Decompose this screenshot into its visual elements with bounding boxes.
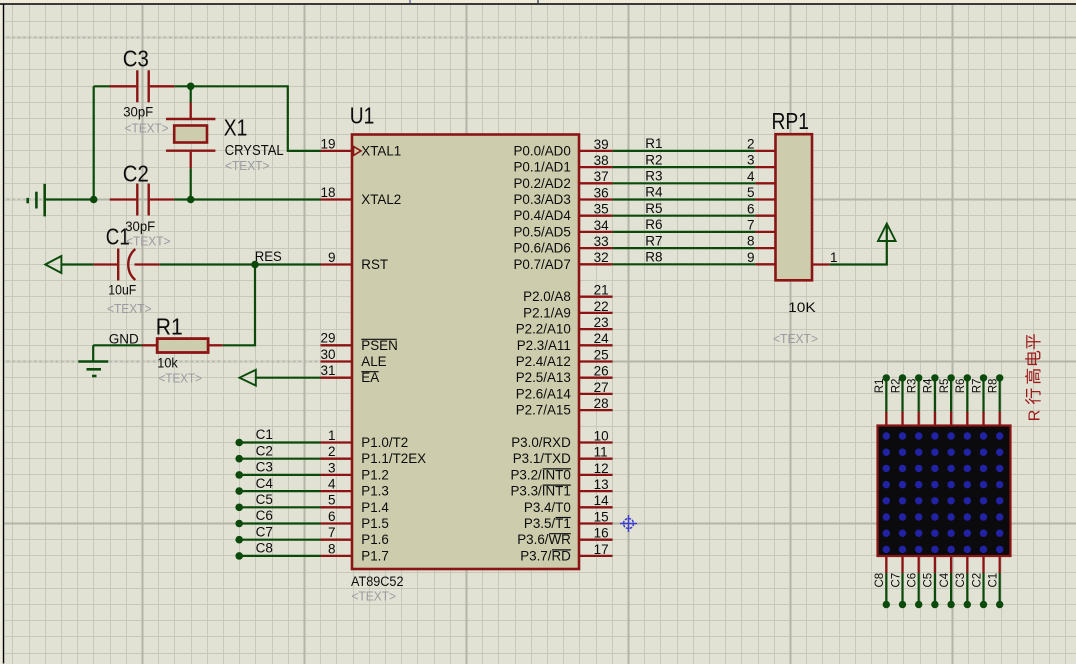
svg-text:17: 17 (594, 542, 609, 557)
svg-text:7: 7 (747, 218, 755, 233)
svg-text:C7: C7 (256, 524, 273, 539)
svg-text:R8: R8 (645, 250, 662, 265)
wire end dot net C2 (235, 455, 243, 463)
svg-text:10K: 10K (788, 300, 816, 315)
svg-text:R5: R5 (939, 379, 951, 394)
svg-text:R5: R5 (645, 201, 662, 216)
svg-text:1: 1 (328, 428, 336, 443)
svg-text:RP1: RP1 (772, 108, 810, 134)
svg-text:39: 39 (594, 137, 609, 152)
svg-text:R6: R6 (955, 379, 967, 394)
svg-text:P2.2/A10: P2.2/A10 (516, 322, 571, 337)
svg-text:4: 4 (328, 477, 336, 492)
XTAL1 clock input triangle (354, 146, 362, 155)
power terminal arrow (up) (878, 224, 896, 241)
IC U1 AT89C52 body (352, 135, 579, 570)
svg-text:15: 15 (594, 509, 609, 524)
RP1 pin 1 (812, 250, 838, 265)
svg-text:C8: C8 (256, 541, 273, 556)
matrix bottom pin C2 (980, 556, 987, 608)
U1 pin 22 P2.1/A9 (523, 299, 612, 321)
matrix bottom label C8 (874, 573, 886, 588)
svg-text:P3.7/RD: P3.7/RD (520, 548, 571, 563)
U1 pin 8 P1.7 (321, 541, 389, 563)
svg-text:8: 8 (328, 541, 336, 556)
svg-text:P2.4/A12: P2.4/A12 (516, 354, 571, 369)
matrix bottom label C7 (890, 573, 902, 588)
svg-text:2: 2 (747, 137, 755, 152)
svg-text:21: 21 (594, 283, 609, 298)
U1 pin 9 RST (321, 250, 389, 272)
svg-text:7: 7 (328, 525, 336, 540)
svg-text:9: 9 (328, 250, 336, 265)
matrix top pin R1 (883, 374, 890, 425)
wire GND to R1 (93, 344, 142, 346)
wire net R4 P0.3 to RP1 (613, 198, 756, 200)
RP1 pin 4 (747, 169, 776, 184)
svg-text:C5: C5 (256, 492, 273, 507)
RP1 pin 3 (747, 153, 776, 168)
wire rail to C3 left pin (94, 85, 110, 87)
matrix bottom label C2 (971, 573, 983, 588)
matrix top label R3 (907, 379, 919, 394)
svg-text:C4: C4 (939, 572, 951, 587)
svg-text:R: R (1026, 410, 1043, 422)
wire junction B to XTAL2 (191, 198, 321, 200)
svg-text:R8: R8 (988, 379, 1000, 394)
svg-text:22: 22 (594, 299, 609, 314)
wire net C3 to P1.2 (239, 474, 320, 476)
svg-text:23: 23 (594, 315, 609, 330)
LED dot-matrix display body (878, 426, 1011, 557)
svg-text:C1: C1 (256, 427, 273, 442)
svg-text:ALE: ALE (361, 354, 386, 369)
RP1 pin 2 (747, 137, 776, 152)
svg-text:CRYSTAL: CRYSTAL (225, 142, 284, 159)
svg-text:30pF: 30pF (123, 104, 153, 119)
wire net C6 to P1.5 (239, 522, 320, 524)
svg-text:C5: C5 (923, 573, 935, 588)
svg-text:P0.6/AD6: P0.6/AD6 (513, 241, 570, 256)
svg-text:4: 4 (747, 169, 755, 184)
matrix top pin R2 (899, 374, 906, 425)
matrix bottom label C4 (939, 572, 951, 587)
svg-text:34: 34 (594, 218, 610, 233)
svg-text:6: 6 (747, 201, 755, 216)
input terminal arrow (RES net) (45, 256, 61, 273)
svg-text:P1.6: P1.6 (361, 532, 389, 547)
U1 pin 36 P0.3/AD3 (513, 185, 612, 207)
RP1 pin 5 (747, 185, 776, 200)
svg-text:28: 28 (594, 396, 609, 411)
U1 pin 13 P3.3/INT1 (511, 477, 613, 499)
svg-text:C8: C8 (874, 573, 886, 588)
svg-text:29: 29 (320, 331, 335, 346)
U1 pin 39 P0.0/AD0 (513, 137, 612, 159)
svg-text:8: 8 (747, 234, 755, 249)
U1 pin 21 P2.0/A8 (523, 283, 612, 305)
U1 pin 27 P2.6/A14 (516, 380, 613, 402)
svg-text:18: 18 (320, 185, 335, 200)
svg-text:R6: R6 (645, 217, 662, 232)
svg-text:5: 5 (747, 185, 755, 200)
svg-text:12: 12 (594, 461, 609, 476)
svg-text:<TEXT>: <TEXT> (125, 121, 169, 136)
U1 pin 5 P1.4 (321, 493, 390, 515)
svg-text:R2: R2 (890, 379, 902, 394)
svg-text:P1.7: P1.7 (361, 548, 389, 563)
svg-text:27: 27 (594, 380, 609, 395)
wire end dot net C5 (235, 504, 243, 512)
svg-text:38: 38 (594, 153, 609, 168)
U1 pin 30 ALE (320, 347, 386, 369)
svg-text:XTAL2: XTAL2 (361, 192, 401, 207)
U1 pin 35 P0.4/AD4 (513, 202, 612, 224)
matrix bottom pin C6 (915, 556, 922, 608)
matrix bottom label C1 (988, 573, 1000, 588)
matrix top pin R3 (915, 374, 922, 425)
U1 pin 31 EA (320, 363, 379, 385)
svg-text:31: 31 (320, 363, 335, 378)
svg-text:P0.2/AD2: P0.2/AD2 (513, 176, 570, 191)
wire vertical rail C3-C2 (93, 86, 95, 199)
svg-text:C4: C4 (256, 476, 274, 491)
svg-text:X1: X1 (224, 114, 248, 140)
matrix bottom pin C7 (899, 556, 906, 608)
U1 pin 2 P1.1/T2EX (321, 444, 427, 466)
svg-text:13: 13 (594, 477, 609, 492)
matrix top label R7 (971, 379, 983, 394)
wire net C7 to P1.6 (239, 539, 320, 541)
svg-text:PSEN: PSEN (361, 338, 397, 353)
svg-text:P1.1/T2EX: P1.1/T2EX (361, 451, 426, 466)
U1 pin 24 P2.3/A11 (517, 331, 613, 353)
svg-text:5: 5 (328, 493, 336, 508)
svg-text:P1.3: P1.3 (361, 484, 389, 499)
svg-text:P2.6/A14: P2.6/A14 (516, 386, 572, 401)
svg-text:GND: GND (109, 331, 139, 346)
svg-text:P3.3/INT1: P3.3/INT1 (511, 484, 571, 499)
wire net R8 P0.7 to RP1 (613, 263, 756, 265)
svg-text:P0.1/AD1: P0.1/AD1 (513, 160, 570, 175)
svg-text:P2.3/A11: P2.3/A11 (517, 338, 571, 353)
input terminal arrow (EA net) (240, 370, 256, 386)
U1 pin 12 P3.2/INT0 (511, 461, 613, 483)
wire end dot net C1 (235, 439, 243, 447)
svg-text:C1: C1 (106, 223, 130, 249)
wire end dot net C8 (235, 552, 243, 560)
svg-text:9: 9 (747, 250, 755, 265)
U1 pin 15 P3.5/T1 (524, 509, 613, 531)
matrix bottom label C6 (907, 573, 919, 588)
U1 pin 16 P3.6/WR (517, 526, 612, 548)
ground symbol (below GND wire) (78, 345, 108, 376)
svg-text:U1: U1 (350, 103, 375, 129)
svg-text:25: 25 (594, 347, 609, 362)
RP1 pin 7 (747, 218, 776, 233)
svg-text:16: 16 (594, 526, 609, 541)
wire net R3 P0.2 to RP1 (613, 182, 756, 184)
svg-text:P3.6/WR: P3.6/WR (517, 532, 571, 547)
svg-text:P1.5: P1.5 (361, 516, 389, 531)
junction dot A (C3/X1 top) (187, 83, 195, 91)
svg-text:<TEXT>: <TEXT> (159, 371, 203, 386)
U1 pin 1 P1.0/T2 (321, 428, 409, 450)
svg-text:P1.0/T2: P1.0/T2 (361, 435, 408, 450)
resistor pack RP1 body (776, 134, 813, 280)
vertical note text R row high level (1025, 334, 1043, 421)
svg-text:11: 11 (594, 445, 608, 460)
resistor R1 (142, 339, 223, 353)
svg-text:P0.5/AD5: P0.5/AD5 (513, 224, 570, 239)
matrix bottom pin C5 (931, 556, 938, 608)
matrix top pin R4 (931, 374, 938, 425)
svg-text:<TEXT>: <TEXT> (352, 588, 397, 603)
svg-text:C6: C6 (907, 573, 919, 588)
U1 pin 7 P1.6 (321, 525, 389, 547)
svg-text:C1: C1 (988, 573, 1000, 588)
matrix top label R1 (874, 379, 886, 394)
svg-text:R4: R4 (645, 185, 663, 200)
wire net R7 P0.6 to RP1 (613, 247, 756, 249)
svg-text:P2.1/A9: P2.1/A9 (523, 305, 571, 320)
wire end dot net C4 (235, 487, 243, 495)
svg-text:36: 36 (594, 185, 609, 200)
svg-text:P3.5/T1: P3.5/T1 (524, 516, 571, 531)
U1 pin 4 P1.3 (321, 477, 389, 499)
svg-text:26: 26 (594, 364, 609, 379)
matrix top label R2 (890, 379, 902, 394)
svg-text:P2.5/A13: P2.5/A13 (516, 370, 571, 385)
U1 pin 34 P0.5/AD5 (513, 218, 612, 240)
svg-text:R7: R7 (971, 379, 983, 394)
U1 pin 17 P3.7/RD (520, 542, 612, 564)
svg-text:37: 37 (594, 169, 609, 184)
RP1 pin 9 (747, 250, 776, 265)
svg-text:R3: R3 (645, 169, 662, 184)
wire net R2 P0.1 to RP1 (613, 166, 756, 168)
svg-text:2: 2 (328, 444, 336, 459)
wire net C4 to P1.3 (239, 490, 320, 492)
svg-text:3: 3 (747, 153, 755, 168)
wire RES junction down to R1 (223, 265, 255, 346)
svg-text:EA: EA (361, 370, 379, 385)
crystal X1 (166, 86, 215, 199)
U1 pin 37 P0.2/AD2 (513, 169, 612, 191)
wire net C1 to P1.0 (239, 441, 320, 443)
matrix top pin R6 (964, 374, 971, 425)
matrix top label R5 (939, 379, 951, 394)
svg-text:32: 32 (594, 250, 609, 265)
U1 pin 23 P2.2/A10 (516, 315, 613, 337)
wire net C5 to P1.4 (239, 506, 320, 508)
matrix bottom pin C1 (996, 556, 1003, 608)
matrix top pin R8 (996, 374, 1003, 425)
svg-text:R2: R2 (645, 152, 662, 167)
matrix bottom pin C4 (947, 556, 954, 608)
wire C1 to RST pin (160, 263, 321, 265)
U1 pin 10 P3.0/RXD (511, 428, 612, 450)
wire RP1 pin1 to power terminal (830, 225, 887, 265)
svg-text:10uF: 10uF (108, 282, 136, 297)
svg-text:P1.4: P1.4 (361, 500, 389, 515)
ground terminal (left of C2) (28, 184, 45, 217)
svg-text:XTAL1: XTAL1 (361, 143, 401, 158)
U1 pin 18 XTAL2 (320, 185, 401, 207)
svg-text:P2.7/A15: P2.7/A15 (516, 403, 571, 418)
matrix top label R6 (955, 379, 967, 394)
svg-text:P0.7/AD7: P0.7/AD7 (513, 257, 570, 272)
svg-text:RES: RES (255, 249, 282, 264)
svg-text:R1: R1 (874, 379, 886, 394)
U1 pin 14 P3.4/T0 (524, 493, 613, 515)
svg-text:<TEXT>: <TEXT> (773, 331, 818, 346)
svg-text:AT89C52: AT89C52 (351, 574, 404, 589)
matrix top label R8 (988, 379, 1000, 394)
svg-text:<TEXT>: <TEXT> (126, 233, 171, 248)
U1 pin 19 XTAL1 (320, 136, 401, 158)
wire net R5 P0.4 to RP1 (613, 215, 756, 217)
wire C2 to junction B (174, 198, 190, 200)
wire end dot net C6 (235, 520, 243, 528)
svg-text:30: 30 (320, 347, 335, 362)
svg-text:C3: C3 (256, 460, 273, 475)
svg-text:RST: RST (361, 257, 388, 272)
svg-text:C2: C2 (123, 160, 149, 186)
svg-text:R1: R1 (156, 314, 183, 340)
svg-text:P3.0/RXD: P3.0/RXD (511, 435, 571, 450)
wire C3 to junction A (174, 85, 190, 87)
svg-text:19: 19 (320, 136, 335, 151)
svg-text:10k: 10k (157, 355, 178, 370)
U1 pin 3 P1.2 (321, 460, 389, 482)
origin marker crosshair (620, 515, 637, 532)
matrix top pin R5 (947, 374, 954, 425)
svg-text:24: 24 (594, 331, 610, 346)
wire net C8 to P1.7 (239, 555, 320, 557)
junction dot RES (251, 261, 259, 269)
RP1 pin 8 (747, 234, 776, 249)
svg-text:P0.3/AD3: P0.3/AD3 (513, 192, 570, 207)
svg-text:P3.2/INT0: P3.2/INT0 (511, 467, 571, 482)
svg-text:R4: R4 (923, 378, 935, 393)
svg-text:P2.0/A8: P2.0/A8 (523, 289, 571, 304)
svg-text:35: 35 (594, 202, 609, 217)
capacitor C1 (polarized) (94, 249, 160, 281)
wire top loop junction A to XTAL1 (191, 86, 321, 151)
U1 pin 29 PSEN (320, 331, 397, 353)
svg-text:10: 10 (594, 428, 609, 443)
svg-text:C6: C6 (256, 508, 273, 523)
svg-text:14: 14 (594, 493, 610, 508)
svg-text:3: 3 (328, 460, 336, 475)
svg-text:C3: C3 (123, 45, 149, 71)
svg-text:C2: C2 (256, 443, 273, 458)
junction dot at ground rail (90, 196, 98, 204)
wire net R1 P0.0 to RP1 (613, 150, 756, 152)
svg-text:R7: R7 (645, 233, 662, 248)
matrix bottom label C3 (955, 573, 967, 588)
svg-text:<TEXT>: <TEXT> (107, 301, 152, 316)
svg-text:R3: R3 (907, 379, 919, 394)
junction dot B (C2/X1 bottom) (187, 196, 195, 204)
wire ground to C2 rail (45, 198, 94, 200)
svg-text:P3.4/T0: P3.4/T0 (524, 500, 571, 515)
RP1 pin 6 (747, 201, 776, 216)
U1 pin 33 P0.6/AD6 (513, 234, 612, 256)
svg-text:<TEXT>: <TEXT> (225, 158, 270, 173)
svg-text:C7: C7 (890, 573, 902, 588)
svg-text:1: 1 (830, 250, 838, 265)
U1 pin 38 P0.1/AD1 (513, 153, 612, 175)
matrix top label R4 (923, 378, 935, 393)
U1 pin 26 P2.5/A13 (516, 364, 613, 386)
svg-text:R1: R1 (645, 136, 662, 151)
U1 pin 28 P2.7/A15 (516, 396, 613, 418)
U1 pin 11 P3.1/TXD (513, 445, 613, 467)
wire end dot net C7 (235, 536, 243, 544)
matrix bottom pin C8 (883, 556, 890, 608)
capacitor C3 (110, 70, 175, 102)
U1 pin 25 P2.4/A12 (516, 347, 613, 369)
wire net R6 P0.5 to RP1 (613, 231, 756, 233)
svg-text:C3: C3 (955, 573, 967, 588)
svg-text:P1.2: P1.2 (361, 467, 389, 482)
matrix top pin R7 (980, 374, 987, 425)
svg-text:33: 33 (594, 234, 609, 249)
LED matrix dots (883, 432, 1004, 553)
svg-text:C2: C2 (971, 573, 983, 588)
svg-text:P0.4/AD4: P0.4/AD4 (513, 208, 571, 223)
matrix bottom pin C3 (964, 556, 971, 608)
svg-text:P3.1/TXD: P3.1/TXD (513, 451, 571, 466)
U1 pin 6 P1.5 (321, 509, 389, 531)
wire net C2 to P1.1 (239, 458, 320, 460)
U1 pin 32 P0.7/AD7 (513, 250, 612, 272)
svg-text:6: 6 (328, 509, 336, 524)
wire end dot net C3 (235, 471, 243, 479)
wire EA terminal to chip (256, 377, 321, 379)
matrix bottom label C5 (923, 573, 935, 588)
wire terminal to C1 (61, 263, 93, 265)
capacitor C2 (110, 184, 175, 216)
svg-text:P0.0/AD0: P0.0/AD0 (513, 143, 570, 158)
